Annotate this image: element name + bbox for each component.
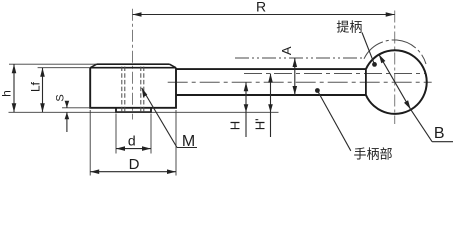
boss chamfer shoulder line [90, 67, 176, 69]
base plane line [9, 111, 279, 113]
shaft axis centerline [168, 81, 432, 83]
svg-text:提柄: 提柄 [336, 20, 362, 35]
dim D [90, 171, 176, 173]
shaft (handle bar) top edge [176, 68, 366, 70]
leader M [142, 88, 177, 148]
dim S [66, 102, 68, 108]
svg-text:M: M [182, 133, 195, 150]
shoulder extension (Lf) [38, 67, 91, 69]
svg-text:h: h [0, 90, 13, 97]
svg-text:A: A [279, 46, 294, 55]
phantom raised top line (two-dot chain) [235, 57, 364, 59]
phantom raised ball arc [364, 40, 426, 64]
svg-text:Lf: Lf [28, 81, 42, 92]
pilot boss protrusion [116, 108, 151, 112]
svg-text:手柄部: 手柄部 [353, 147, 392, 162]
shaft bottom edge [176, 94, 366, 96]
phantom raised axis centerline [244, 73, 425, 75]
label grip (teihei) [372, 62, 377, 67]
D extension left [89, 110, 91, 176]
hidden thread lines [121, 67, 123, 113]
boss block sides and bottom [90, 68, 176, 108]
dim d [116, 148, 151, 150]
boss left chamfer [90, 64, 96, 68]
ball centerline vertical (R right extension) [394, 11, 396, 125]
ball grip [366, 50, 427, 114]
dim h [13, 64, 15, 112]
dim H [245, 82, 247, 137]
dim A [294, 58, 296, 95]
dim Lf [42, 68, 44, 113]
d extension right [150, 114, 152, 154]
dim B (ball diameter, diagonal) [379, 54, 411, 109]
svg-text:d: d [128, 133, 136, 149]
dim R [133, 14, 395, 16]
svg-text:H': H' [252, 118, 267, 130]
hole centerline (boss axis, R left extension) [132, 9, 134, 120]
top face extension (h) [9, 63, 96, 65]
label handle part (shuheibu) [315, 88, 320, 93]
boss top face line [97, 63, 170, 65]
boss right chamfer [170, 64, 177, 68]
svg-text:S: S [55, 94, 67, 101]
D extension right [175, 110, 177, 176]
dim H' [270, 74, 272, 138]
svg-text:D: D [129, 156, 140, 173]
svg-text:R: R [256, 0, 266, 15]
svg-text:B: B [434, 125, 445, 142]
svg-text:H: H [228, 121, 243, 130]
d extension left [115, 114, 117, 154]
block bottom extension (S) [62, 107, 90, 109]
shaft end cap at ball [365, 69, 367, 95]
